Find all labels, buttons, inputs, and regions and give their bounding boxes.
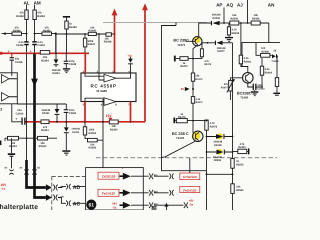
svg-text:R3460: R3460 xyxy=(88,30,96,33)
svg-text:P2477: P2477 xyxy=(221,86,229,89)
transistor Q1 T2472 xyxy=(186,36,202,46)
svg-text:AC: AC xyxy=(73,202,81,208)
connector right row3 xyxy=(184,202,188,208)
transistor Q3 T2478 xyxy=(193,131,203,141)
wire pin2 column xyxy=(98,34,100,73)
svg-text:D3453: D3453 xyxy=(72,131,80,134)
op-amp box left xyxy=(0,73,17,104)
connector A4 mid xyxy=(19,167,28,175)
wire AJ column xyxy=(247,0,249,24)
svg-text:C2459: C2459 xyxy=(272,60,280,63)
junction dots row y34 xyxy=(66,33,116,35)
svg-text:CrO2/120: CrO2/120 xyxy=(102,175,116,179)
resistor R2500 xyxy=(230,14,251,25)
svg-text:+: + xyxy=(249,81,251,85)
wire to AC xyxy=(58,198,85,204)
svg-text:R2464: R2464 xyxy=(265,71,273,74)
svg-text:R2449: R2449 xyxy=(238,146,246,149)
resistor R3443 xyxy=(38,136,48,148)
svg-text:R3447: R3447 xyxy=(88,43,96,46)
wire AP stub xyxy=(223,8,225,24)
terminal tick R2470 xyxy=(174,56,176,62)
svg-text:D3451: D3451 xyxy=(42,112,50,115)
IC pin numbers top xyxy=(83,70,131,73)
wire Q3 emitter down xyxy=(162,141,196,158)
diode D2446 at pin4 xyxy=(128,57,133,73)
svg-text:FeCr/120: FeCr/120 xyxy=(102,192,115,196)
svg-text:R3462: R3462 xyxy=(16,15,24,18)
svg-text:R3464: R3464 xyxy=(13,30,21,33)
svg-text:C3443: C3443 xyxy=(16,112,24,115)
capacitor C3452 xyxy=(16,41,29,47)
wire x26.5 down xyxy=(26,53,28,160)
junction dots on bus xyxy=(55,52,67,54)
arrow row1 mid xyxy=(120,173,131,180)
potentiometer P2477 xyxy=(221,78,235,100)
svg-text:AP: AP xyxy=(216,2,222,7)
connector AD xyxy=(66,184,80,191)
svg-text:R2499: R2499 xyxy=(232,32,240,35)
node AM xyxy=(34,1,41,6)
capacitor C3436 xyxy=(10,57,23,73)
svg-text:AJ: AJ xyxy=(237,2,243,7)
svg-text:CrO2/120: CrO2/120 xyxy=(183,175,197,179)
svg-text:R2476: R2476 xyxy=(210,125,218,128)
resistor R3456 xyxy=(88,138,104,167)
wire y170.7 lower right xyxy=(162,158,207,171)
dash-dot boundary vertical xyxy=(52,176,85,210)
resistor R2560 xyxy=(231,184,244,194)
wire feedback row y34 xyxy=(56,34,115,53)
svg-text:BC 238C: BC 238C xyxy=(173,38,189,42)
red text row3 left xyxy=(112,202,117,210)
label CrO2 left xyxy=(98,172,119,179)
resistor R3453 xyxy=(8,136,19,148)
diode D2477 xyxy=(215,41,233,53)
svg-text:C3448: C3448 xyxy=(69,63,77,66)
capacitor C3448 xyxy=(64,54,77,68)
op-amp U1c inside IC xyxy=(85,73,131,82)
resistor R2470 xyxy=(176,57,202,68)
connector break gaps xyxy=(10,171,36,174)
label FeCr right xyxy=(180,186,200,192)
wire AM column xyxy=(34,5,36,54)
svg-text:R2470: R2470 xyxy=(180,65,188,68)
red drop IC pin5 to bus2 xyxy=(84,102,86,122)
node AL xyxy=(24,1,30,6)
transistor Q2 T2460 labels xyxy=(237,92,252,100)
svg-text:R2500: R2500 xyxy=(230,17,238,20)
svg-text:R2472: R2472 xyxy=(195,78,203,81)
svg-text:T2460: T2460 xyxy=(240,96,248,100)
svg-text:AD: AD xyxy=(73,185,81,191)
resistor R3454 on bus2 xyxy=(109,120,118,131)
svg-text:R2448: R2448 xyxy=(104,41,112,44)
svg-text:R2458: R2458 xyxy=(252,17,260,20)
wire resistor row y138.2 xyxy=(5,137,57,139)
svg-text:15V: 15V xyxy=(106,114,113,118)
ground below C2463 xyxy=(251,91,259,96)
resistor R3462 xyxy=(16,10,28,20)
ground bar left xyxy=(8,153,15,168)
svg-text:R3465: R3465 xyxy=(43,30,51,33)
node input L xyxy=(4,32,6,34)
resistor R2472 xyxy=(191,59,203,82)
resistor R3450 xyxy=(83,122,96,139)
capacitor C3443 xyxy=(15,109,25,125)
transistor Q2 T2460 xyxy=(230,73,253,84)
connector right row1 xyxy=(169,173,173,179)
resistor R2461 xyxy=(239,22,252,73)
resistor R3451 on bus2 xyxy=(41,120,49,132)
connector pair row2 xyxy=(53,195,64,201)
wire corner x161.5 xyxy=(162,23,177,159)
connector row1 at box edge xyxy=(131,173,158,179)
svg-text:halterplatte: halterplatte xyxy=(0,204,38,210)
svg-text:8V: 8V xyxy=(181,88,184,91)
svg-text:R2474: R2474 xyxy=(204,63,212,66)
wire to AD xyxy=(58,186,85,189)
capacitor C2463 xyxy=(249,81,265,91)
resistor R2464 xyxy=(260,66,272,75)
resistor R3465 xyxy=(42,27,52,36)
svg-text:R3453: R3453 xyxy=(9,145,17,148)
svg-text:R2475: R2475 xyxy=(178,116,186,119)
svg-text:C3451: C3451 xyxy=(37,44,45,47)
svg-text:R2505: R2505 xyxy=(236,164,244,167)
wire AL column xyxy=(26,5,28,53)
wire box pin to bus2 xyxy=(12,104,22,122)
wire left ground column xyxy=(5,138,12,153)
resistor R2476 xyxy=(205,120,218,210)
diode D2448 xyxy=(206,133,234,147)
capacitor C3453 xyxy=(64,104,77,122)
label FeCr left xyxy=(98,189,119,196)
svg-text:61: 61 xyxy=(89,203,95,209)
svg-text:+: + xyxy=(15,117,17,121)
resistor R3447 xyxy=(83,34,95,53)
resistor R3460 xyxy=(88,26,96,35)
red drop IC pin7 to bus2 xyxy=(130,102,132,122)
resistor R2465 right edge xyxy=(275,78,278,87)
diode C2459 xyxy=(272,49,280,62)
node 2 label xyxy=(0,107,2,111)
svg-text:-5a: -5a xyxy=(128,53,132,57)
diode D3453 xyxy=(64,122,81,151)
resistor R2448 xyxy=(104,33,112,44)
connector row3 at box edge xyxy=(131,202,158,208)
resistor R3463 xyxy=(33,10,46,20)
IC pin numbers bottom xyxy=(83,104,130,107)
resistor R2449 xyxy=(233,143,250,154)
svg-text:R3454: R3454 xyxy=(110,128,118,131)
thick signal row 1 xyxy=(27,160,52,191)
junction dots bus2 xyxy=(26,121,132,123)
ground below D3453 xyxy=(62,150,70,155)
connector A4 left xyxy=(4,167,13,175)
red supply bus 2 y121.8 xyxy=(26,121,146,123)
box switch module xyxy=(86,168,144,210)
diode D3444 xyxy=(52,54,61,75)
svg-text:-1a: -1a xyxy=(1,187,5,191)
wire right edge column xyxy=(276,55,278,92)
wire Q1 emitter down xyxy=(193,45,198,59)
svg-text:R2560: R2560 xyxy=(236,189,244,192)
op-amp U1a xyxy=(2,75,10,84)
connector row2 at box edge xyxy=(131,190,158,196)
svg-text:C3453: C3453 xyxy=(69,112,77,115)
svg-text:gR: gR xyxy=(60,195,63,198)
svg-text:D2449: D2449 xyxy=(213,17,221,20)
capacitor C3451 xyxy=(32,41,45,47)
wire Q2 emitter row xyxy=(248,58,263,88)
resistor R3464 xyxy=(12,27,22,36)
junction dots input row xyxy=(26,33,36,35)
svg-text:R3444: R3444 xyxy=(41,59,49,62)
left edge mark xyxy=(0,141,1,146)
svg-text:C3436: C3436 xyxy=(15,61,23,64)
node 61 xyxy=(86,200,96,210)
connector right row2 xyxy=(169,190,173,196)
svg-text:-5a: -5a xyxy=(189,202,193,206)
svg-text:-5a: -5a xyxy=(112,205,116,209)
thick signal row 2 xyxy=(35,168,52,201)
resistor R3458 xyxy=(65,21,77,29)
svg-text:D2477: D2477 xyxy=(217,50,225,53)
connector pair row1 xyxy=(53,185,64,191)
wire R3458 to bus xyxy=(66,29,68,53)
red drop bus to IC pin3 xyxy=(84,53,86,73)
red text 15V left xyxy=(1,183,8,191)
node input R xyxy=(55,32,57,34)
resistor R2475 xyxy=(175,113,206,123)
resistor R2499 xyxy=(227,23,239,37)
svg-text:R2460: R2460 xyxy=(262,50,270,53)
svg-text:C2463: C2463 xyxy=(257,87,265,90)
svg-text:R3450: R3450 xyxy=(89,132,97,135)
svg-text:R2471: R2471 xyxy=(196,101,204,104)
ground below R2499 xyxy=(225,37,233,42)
svg-text:D2448: D2448 xyxy=(214,144,222,147)
label CrO2 right xyxy=(180,173,200,180)
red supply bus y53.3 xyxy=(1,52,89,54)
resistor R2458 xyxy=(251,14,269,42)
gray wire y22.5 xyxy=(103,22,207,24)
wire to CrO2 right xyxy=(189,158,191,173)
red vertical supply 1 with arrow xyxy=(112,9,118,73)
wire input row y33.6 xyxy=(2,34,56,53)
connector A5 xyxy=(32,167,40,175)
transistor Q1 T2472 labels xyxy=(173,38,189,46)
transistor Q3 T2478 labels xyxy=(172,132,189,140)
svg-text:R3451: R3451 xyxy=(41,129,49,132)
red polarity marks xyxy=(8,50,32,54)
red mark on box edge xyxy=(122,168,124,171)
red 15V supply marker xyxy=(106,114,113,121)
diode D2505 xyxy=(206,149,234,163)
red text -5a xyxy=(128,53,132,57)
thick signal line AM down xyxy=(33,54,36,169)
svg-text:R2461: R2461 xyxy=(244,61,252,64)
wire y174.3 xyxy=(206,173,234,175)
red vertical supply 2 with arrow xyxy=(142,3,148,121)
wire long right column x232.5 xyxy=(232,43,234,210)
svg-text:2: 2 xyxy=(0,107,2,111)
resistor R2505 xyxy=(231,159,244,169)
terminal tick R2475 xyxy=(173,118,175,124)
svg-text:R3463: R3463 xyxy=(37,15,45,18)
svg-text:D2505: D2505 xyxy=(214,159,222,162)
wire Q1 collector up xyxy=(199,23,212,37)
node AN xyxy=(268,3,275,8)
resistor R3444 on bus xyxy=(40,51,49,63)
arrow row3 mid xyxy=(120,202,131,209)
ground rail above R3458 xyxy=(63,16,70,21)
svg-text:R3443: R3443 xyxy=(39,145,47,148)
ground below C3448 xyxy=(63,68,70,73)
wires rows to right module xyxy=(154,176,183,205)
signal arrow down xyxy=(31,79,38,87)
bottom edge marks xyxy=(152,203,169,210)
svg-text:T2478: T2478 xyxy=(176,136,184,140)
resistor R2473 xyxy=(200,43,212,66)
wire IC pin6 down xyxy=(102,102,104,141)
svg-text:AN: AN xyxy=(268,3,275,8)
diode D3451 xyxy=(41,104,59,122)
svg-text:C3452: C3452 xyxy=(16,44,24,47)
svg-text:AQ: AQ xyxy=(226,2,233,7)
svg-text:D3444: D3444 xyxy=(52,72,60,75)
box module top right xyxy=(242,43,280,66)
svg-text:T2472: T2472 xyxy=(177,43,185,47)
ground right edge xyxy=(273,93,280,96)
red text row3 right xyxy=(189,199,194,207)
op-amp U1b xyxy=(2,93,10,102)
board name halterplatte xyxy=(0,204,38,211)
diode D2449 xyxy=(211,14,230,26)
IC U1 RC4558P xyxy=(81,73,136,102)
op-amp U1d inside IC xyxy=(85,98,118,106)
arrow row2 mid xyxy=(120,189,131,196)
red bus start dot xyxy=(0,52,3,55)
svg-text:R3456: R3456 xyxy=(88,147,96,150)
svg-text:R3458: R3458 xyxy=(69,26,77,29)
measurement arrow 8V xyxy=(181,81,194,96)
resistor R2471 xyxy=(191,97,203,134)
dash-dot module boundary xyxy=(96,157,277,159)
resistor R2460 xyxy=(256,43,272,58)
wire Q1 base row to diode D2477 xyxy=(202,42,215,44)
svg-text:FeCr/120: FeCr/120 xyxy=(183,188,196,192)
connector AC xyxy=(66,201,80,208)
svg-text:IS 3448: IS 3448 xyxy=(97,89,108,93)
node AP AQ AJ xyxy=(216,2,243,7)
wire op-amp out row y104 xyxy=(17,103,66,105)
red stub to op-amp box xyxy=(11,53,13,57)
